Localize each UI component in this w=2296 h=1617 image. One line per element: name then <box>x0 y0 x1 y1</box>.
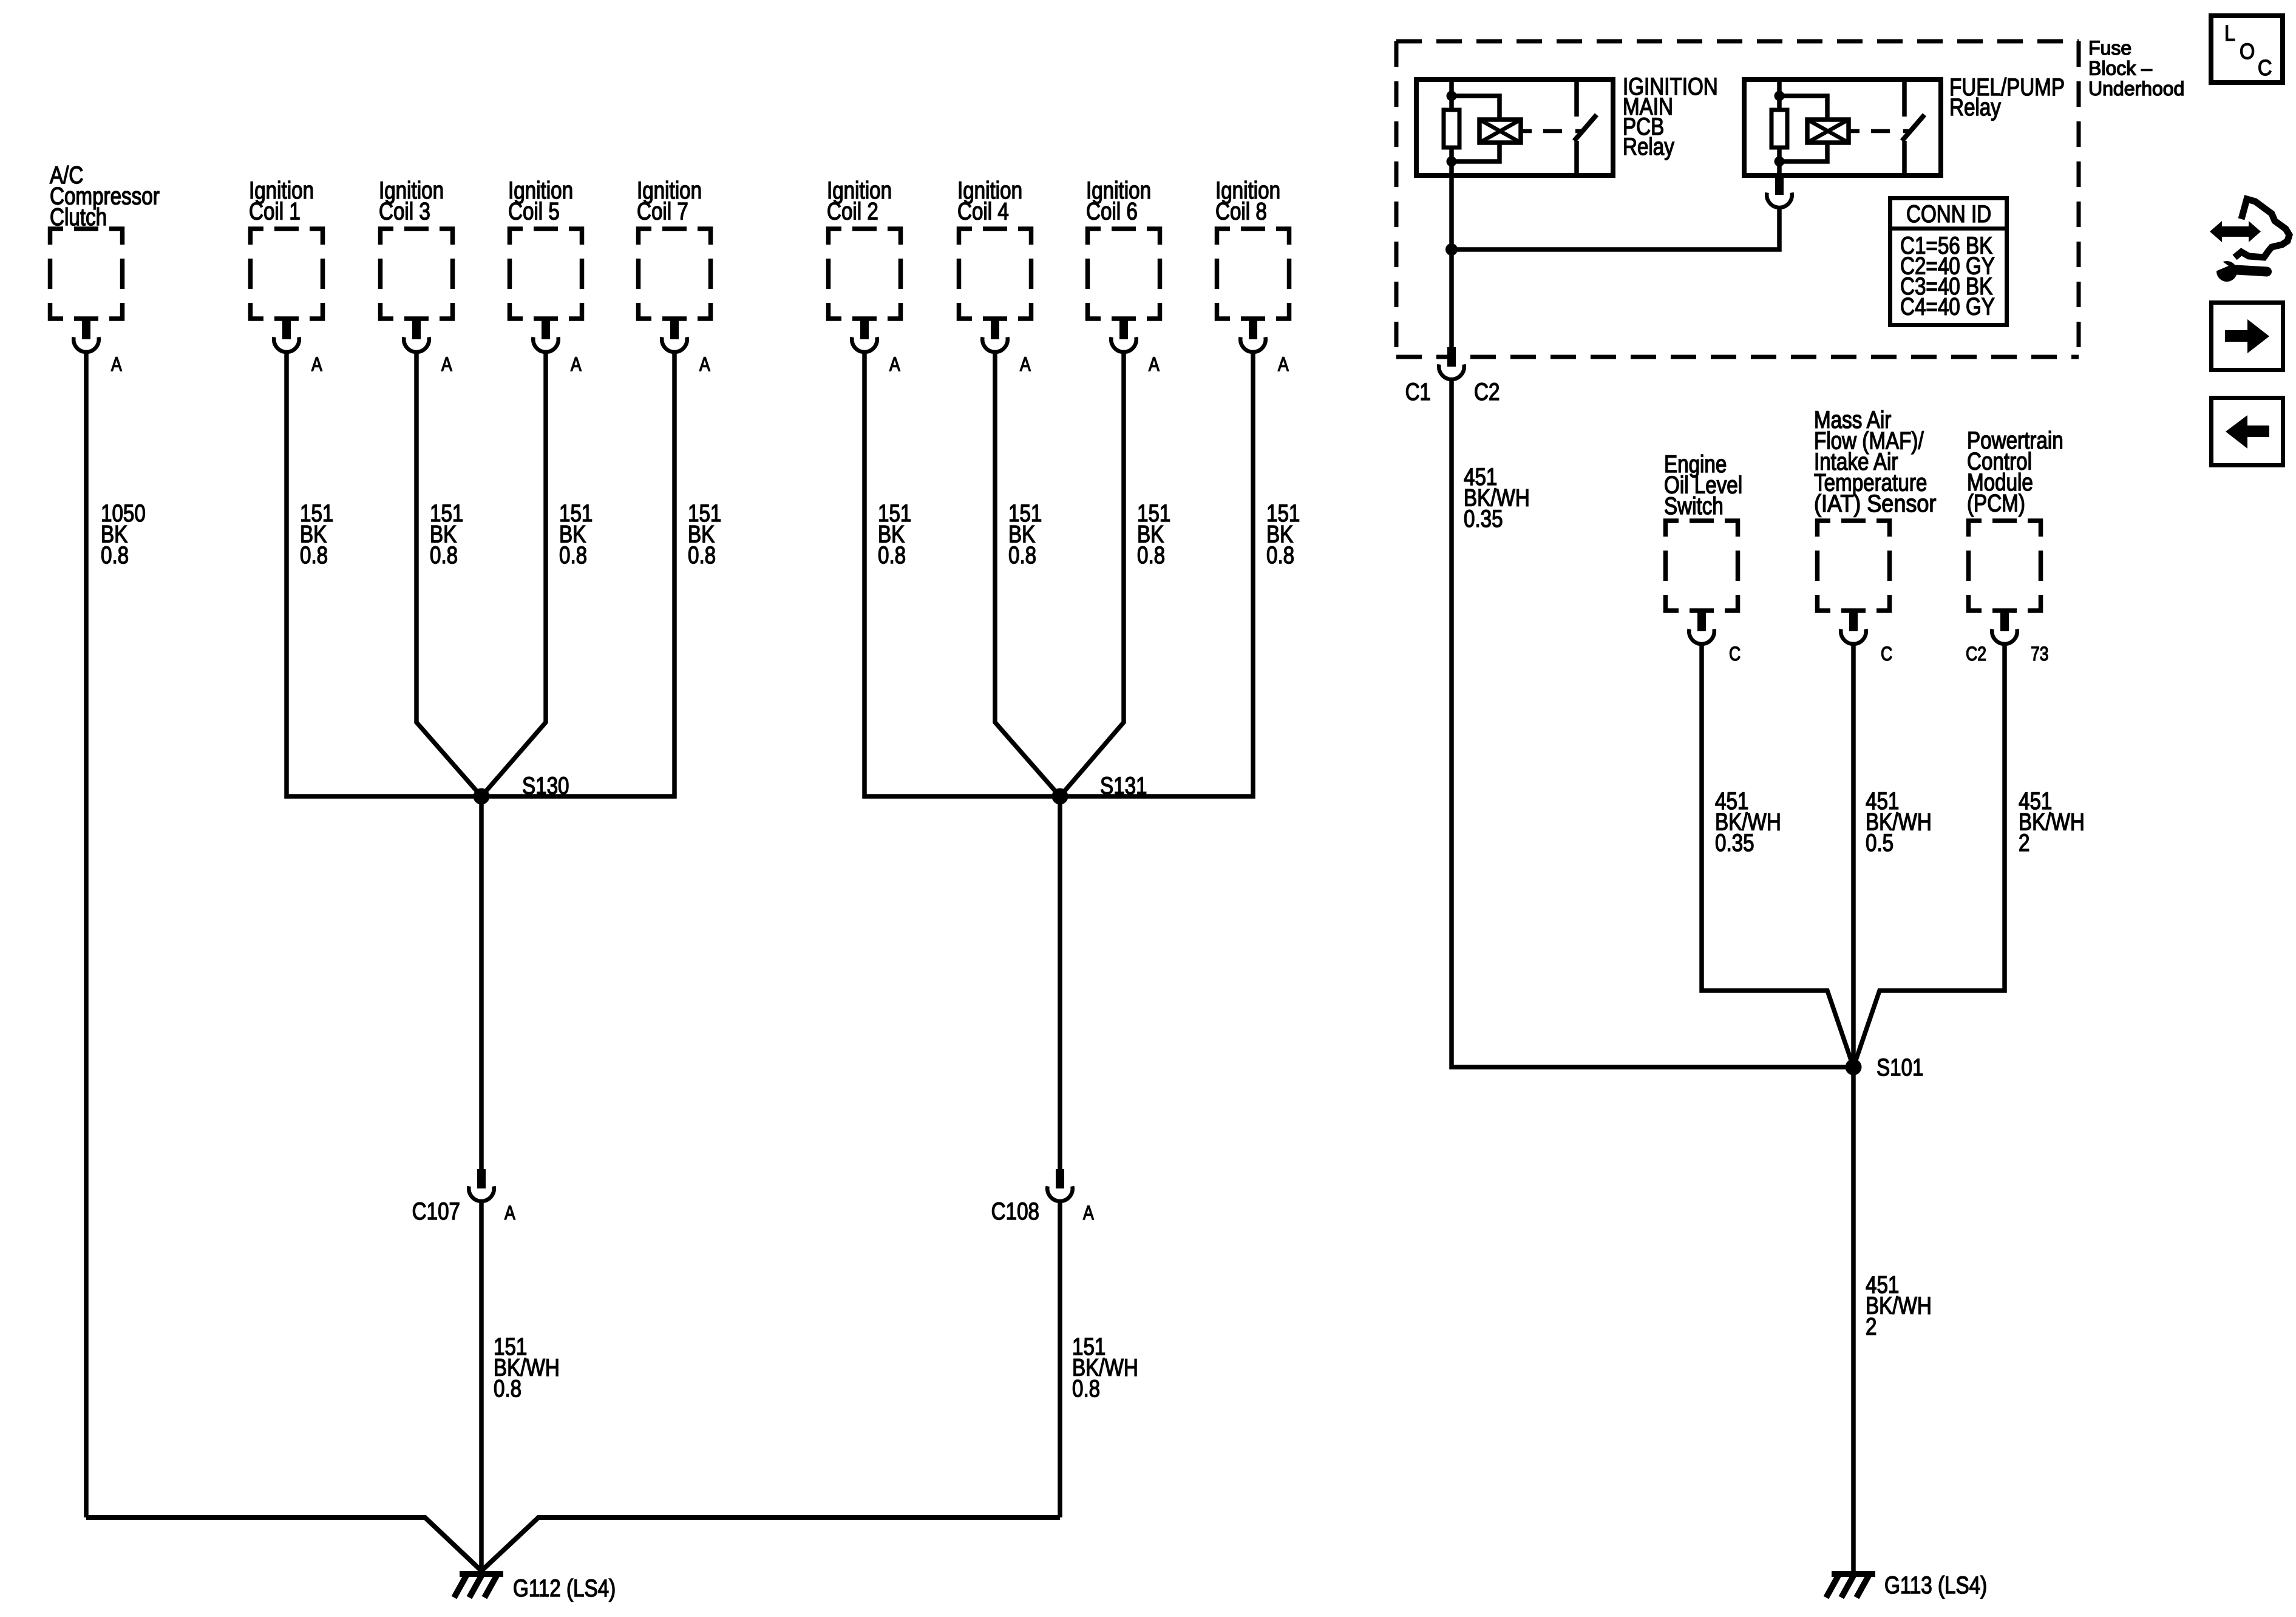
forward arrow icon <box>2212 303 2283 370</box>
svg-text:451BK/WH0.5: 451BK/WH0.5 <box>1866 787 1932 856</box>
ground G112 (LS4) <box>454 1571 616 1602</box>
Ignition Coil 5 box <box>510 229 582 319</box>
connector A of Ignition Coil 3 <box>404 320 452 376</box>
svg-text:IgnitionCoil 3: IgnitionCoil 3 <box>379 177 444 225</box>
svg-text:A: A <box>1083 1202 1094 1224</box>
wire 151 BK 0.8 from S131 to C108 <box>1058 796 1062 1173</box>
wire 1050 BK 0.8 from A/C Compressor Clutch to G112 <box>86 351 146 1517</box>
svg-text:A: A <box>699 354 710 376</box>
wire 151 BK 0.8 from Ignition Coil 5 to S130 <box>481 351 593 796</box>
wire 451 BK/WH 2 from PCM to S101 <box>1853 643 2085 1067</box>
diagnostic icon (arrow through panel with wrench) <box>2210 199 2289 282</box>
svg-text:151BK0.8: 151BK0.8 <box>1137 500 1170 569</box>
connector A of Ignition Coil 7 <box>662 320 710 376</box>
ground bus wire into G112 <box>86 1517 1060 1571</box>
svg-text:151BK0.8: 151BK0.8 <box>430 500 463 569</box>
connector C of MAF/IAT Sensor <box>1841 612 1892 665</box>
splice S101 <box>1846 1054 1924 1081</box>
svg-text:A: A <box>571 354 582 376</box>
Ignition Coil 1 box <box>251 229 323 319</box>
svg-text:73: 73 <box>2031 643 2049 665</box>
wire 451 BK/WH 0.5 from MAF/IAT Sensor to S101 <box>1853 643 1932 1067</box>
connector under FUEL/PUMP relay <box>1767 175 1792 208</box>
svg-text:A: A <box>889 354 900 376</box>
svg-text:451BK/WH0.35: 451BK/WH0.35 <box>1464 463 1530 532</box>
wire from IGNITION MAIN relay to C1/C2 <box>1449 175 1454 351</box>
svg-text:IgnitionCoil 8: IgnitionCoil 8 <box>1215 177 1280 225</box>
svg-text:IgnitionCoil 6: IgnitionCoil 6 <box>1086 177 1151 225</box>
Mass Air Flow (MAF)/Intake Air Temperature (IAT) Sensor label <box>1814 406 1937 517</box>
connector A of Ignition Coil 2 <box>852 320 900 376</box>
Powertrain Control Module (PCM) label <box>1967 427 2063 517</box>
svg-text:C107: C107 <box>412 1198 460 1225</box>
wire 451 BK/WH 2 from S101 to G113 <box>1853 1067 1932 1571</box>
svg-text:C1: C1 <box>1405 378 1431 405</box>
svg-text:A: A <box>1020 354 1031 376</box>
svg-text:IgnitionCoil 7: IgnitionCoil 7 <box>637 177 702 225</box>
svg-text:S131: S131 <box>1100 772 1147 799</box>
Ignition Coil 6 box <box>1088 229 1160 319</box>
wire 151 BK 0.8 from Ignition Coil 3 to S130 <box>416 351 481 796</box>
wire 451 BK/WH 0.35 from C1/C2 to S101 <box>1452 379 1853 1067</box>
connector C107 pin A <box>412 1169 515 1225</box>
svg-text:S101: S101 <box>1877 1054 1924 1081</box>
MAF/IAT Sensor box <box>1818 521 1890 611</box>
svg-text:C: C <box>1881 643 1892 665</box>
Ignition Coil 3 label <box>379 177 444 225</box>
wire 151 BK/WH 0.8 from C108 to G112 <box>1060 1201 1138 1517</box>
svg-text:IgnitionCoil 2: IgnitionCoil 2 <box>827 177 892 225</box>
A/C Compressor Clutch label <box>50 161 160 231</box>
wire 151 BK 0.8 from Ignition Coil 8 to S131 <box>1060 351 1300 796</box>
svg-text:G112 (LS4): G112 (LS4) <box>513 1575 616 1602</box>
CONN ID table <box>1890 198 2007 325</box>
svg-text:C2: C2 <box>1474 378 1500 405</box>
svg-text:C1=56 BKC2=40 GYC3=40 BKC4=40: C1=56 BKC2=40 GYC3=40 BKC4=40 GY <box>1900 232 1995 320</box>
wire 151 BK 0.8 from Ignition Coil 1 to S130 <box>287 351 481 796</box>
Ignition Coil 2 label <box>827 177 892 225</box>
svg-text:(IAT) Sensor: (IAT) Sensor <box>1814 490 1937 517</box>
Fuse Block - Underhood dashed boundary <box>1396 41 2079 357</box>
PCM box <box>1969 521 2041 611</box>
Ignition Coil 3 box <box>381 229 453 319</box>
svg-text:C108: C108 <box>991 1198 1039 1225</box>
svg-text:451BK/WH0.35: 451BK/WH0.35 <box>1715 787 1781 856</box>
connector A of Ignition Coil 4 <box>982 320 1031 376</box>
svg-text:A: A <box>1149 354 1160 376</box>
svg-text:IgnitionCoil 1: IgnitionCoil 1 <box>249 177 314 225</box>
svg-text:151BK0.8: 151BK0.8 <box>559 500 593 569</box>
svg-text:O: O <box>2240 39 2255 64</box>
svg-text:A: A <box>441 354 452 376</box>
svg-text:A: A <box>504 1202 515 1224</box>
svg-text:A: A <box>1278 354 1289 376</box>
svg-text:151BK0.8: 151BK0.8 <box>1008 500 1042 569</box>
Ignition Coil 6 label <box>1086 177 1151 225</box>
svg-text:151BK/WH0.8: 151BK/WH0.8 <box>494 1333 560 1402</box>
relay K1 IGINITION MAIN PCB Relay <box>1416 73 1718 175</box>
svg-text:FuseBlock –Underhood: FuseBlock –Underhood <box>2088 37 2184 100</box>
connector A of Ignition Coil 1 <box>274 320 322 376</box>
Ignition Coil 7 box <box>639 229 711 319</box>
svg-text:EngineOil LevelSwitch: EngineOil LevelSwitch <box>1664 450 1742 520</box>
svg-text:C2: C2 <box>1966 643 1986 665</box>
Ignition Coil 4 box <box>959 229 1031 319</box>
svg-text:CONN ID: CONN ID <box>1906 200 1991 228</box>
wire 451 BK/WH 0.35 from Engine Oil Level Switch to S101 <box>1702 643 1853 1067</box>
A/C Compressor Clutch box <box>50 229 123 319</box>
svg-text:L: L <box>2224 21 2235 46</box>
connector C2 pin 73 of PCM <box>1966 612 2048 665</box>
svg-text:151BK/WH0.8: 151BK/WH0.8 <box>1072 1333 1138 1402</box>
relay K2 FUEL/PUMP Relay <box>1744 73 2065 175</box>
Fuse Block - Underhood label <box>2088 37 2184 100</box>
Ignition Coil 7 label <box>637 177 702 225</box>
svg-text:151BK0.8: 151BK0.8 <box>1266 500 1300 569</box>
svg-text:A/CCompressorClutch: A/CCompressorClutch <box>50 161 160 231</box>
svg-text:C: C <box>1729 643 1741 665</box>
LOC reference box icon <box>2211 16 2283 83</box>
connector C1/C2 at fuse block <box>1405 347 1500 405</box>
Engine Oil Level Switch label <box>1664 450 1742 520</box>
connector A of A/C Compressor Clutch <box>73 320 122 376</box>
wire from FUEL/PUMP relay to junction <box>1452 207 1779 249</box>
connector A of Ignition Coil 6 <box>1111 320 1160 376</box>
ground G113 (LS4) <box>1826 1571 1987 1599</box>
Ignition Coil 1 label <box>249 177 314 225</box>
wire 151 BK 0.8 from Ignition Coil 7 to S130 <box>481 351 721 796</box>
svg-text:151BK0.8: 151BK0.8 <box>300 500 333 569</box>
splice S131 <box>1052 772 1147 804</box>
svg-text:151BK0.8: 151BK0.8 <box>688 500 721 569</box>
svg-text:PowertrainControlModule(PCM): PowertrainControlModule(PCM) <box>1967 427 2063 517</box>
connector A of Ignition Coil 8 <box>1240 320 1289 376</box>
svg-text:151BK0.8: 151BK0.8 <box>878 500 911 569</box>
junction dot on IGNITION MAIN relay output <box>1445 243 1458 256</box>
Ignition Coil 8 box <box>1217 229 1289 319</box>
connector C108 pin A <box>991 1169 1094 1225</box>
svg-text:FUEL/PUMPRelay: FUEL/PUMPRelay <box>1949 73 2065 121</box>
Ignition Coil 4 label <box>957 177 1022 225</box>
wire 151 BK 0.8 from Ignition Coil 6 to S131 <box>1060 351 1170 796</box>
Ignition Coil 5 label <box>508 177 573 225</box>
wire 151 BK 0.8 from Ignition Coil 2 to S131 <box>864 351 1060 796</box>
connector C of Engine Oil Level Switch <box>1689 612 1741 665</box>
wire 151 BK 0.8 from Ignition Coil 4 to S131 <box>995 351 1060 796</box>
wire 151 BK 0.8 from S130 to C107 <box>479 796 484 1173</box>
svg-text:A: A <box>311 354 322 376</box>
Engine Oil Level Switch box <box>1666 521 1738 611</box>
wire 151 BK/WH 0.8 from C107 to G112 <box>481 1201 560 1571</box>
svg-text:451BK/WH2: 451BK/WH2 <box>2019 787 2085 856</box>
svg-text:Mass AirFlow (MAF)/Intake AirT: Mass AirFlow (MAF)/Intake AirTemperature <box>1814 406 1927 496</box>
Ignition Coil 2 box <box>829 229 901 319</box>
svg-text:A: A <box>111 354 122 376</box>
svg-text:IGINITIONMAINPCBRelay: IGINITIONMAINPCBRelay <box>1623 73 1718 160</box>
svg-text:C: C <box>2258 56 2272 80</box>
svg-text:IgnitionCoil 5: IgnitionCoil 5 <box>508 177 573 225</box>
svg-text:IgnitionCoil 4: IgnitionCoil 4 <box>957 177 1022 225</box>
svg-text:G113 (LS4): G113 (LS4) <box>1884 1571 1987 1599</box>
svg-text:1050BK0.8: 1050BK0.8 <box>101 500 146 569</box>
splice S130 <box>474 772 569 804</box>
svg-text:S130: S130 <box>522 772 569 799</box>
Ignition Coil 8 label <box>1215 177 1280 225</box>
svg-text:451BK/WH2: 451BK/WH2 <box>1866 1271 1932 1340</box>
back arrow icon <box>2212 398 2283 466</box>
connector A of Ignition Coil 5 <box>533 320 582 376</box>
